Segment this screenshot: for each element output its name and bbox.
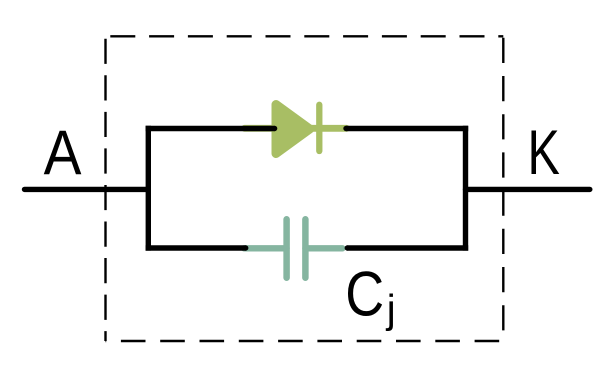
wire: cathode terminal lead (K) (466, 187, 590, 192)
diode D1 (olive) : lead line (245, 125, 347, 132)
wire: left vertical bus (146, 126, 151, 251)
wire: bottom branch, right segment (347, 245, 468, 250)
wire: top branch, right segment (346, 126, 468, 131)
dashed enclosure box (device boundary) (106, 36, 504, 341)
svg-text:K: K (528, 117, 560, 188)
capacitor Cj (teal) : right lead (305, 245, 342, 251)
capacitor Cj (teal) : left lead (244, 245, 287, 251)
diode D1 (olive) : anode triangle (276, 105, 310, 154)
svg-text:A: A (44, 117, 82, 187)
svg-text:C: C (345, 260, 384, 330)
svg-text:j: j (386, 288, 396, 332)
wire: right vertical bus (463, 126, 468, 251)
wire: anode terminal lead (A) (25, 187, 149, 192)
diode D1 (olive) : cathode bar (316, 105, 322, 151)
wire: top branch, left segment (146, 126, 275, 131)
capacitor Cj (teal) : right plate (302, 219, 309, 277)
capacitor Cj (teal) : left plate (283, 219, 290, 277)
wire: bottom branch, left segment (146, 245, 246, 250)
